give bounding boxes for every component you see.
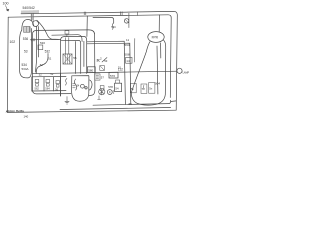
small box above 542 [116, 80, 120, 83]
svg-text:580: 580 [88, 69, 93, 73]
svg-text:2: 2 [100, 57, 102, 61]
vapor line right 2 [87, 43, 131, 104]
svg-text:5n: 5n [149, 87, 152, 91]
pump hatched box [63, 38, 72, 65]
svg-text:59: 59 [129, 102, 133, 106]
leader arrow for 100 [6, 6, 9, 12]
level marks [73, 84, 76, 88]
sensor glyph 2 [46, 80, 50, 87]
float squiggle [75, 79, 77, 90]
svg-text:53: 53 [104, 59, 108, 63]
svg-text:52: 52 [39, 72, 42, 76]
main fuel line [33, 71, 177, 74]
pump circle with dot [107, 90, 112, 95]
svg-text:540/542: 540/542 [23, 6, 35, 10]
border bottom [7, 110, 176, 112]
star valve [99, 89, 105, 95]
tick below [98, 96, 101, 100]
svg-text:594: 594 [124, 43, 129, 47]
sensor row bottom line [32, 90, 66, 92]
s-curve pipe [36, 54, 48, 74]
tick pair x120 [120, 12, 122, 15]
svg-text:54: 54 [77, 84, 80, 87]
sensor glyph 1 [35, 80, 39, 87]
svg-text:52: 52 [50, 72, 53, 76]
wire top tube outer [21, 11, 177, 110]
vertical from top tube to tank [86, 16, 88, 36]
svg-text:53: 53 [24, 50, 28, 54]
svg-text:14: 14 [126, 59, 130, 63]
svg-text:536: 536 [23, 37, 29, 41]
squiggle valve [112, 23, 113, 29]
svg-text:LAMP: LAMP [183, 71, 189, 74]
svg-text:50C: 50C [111, 25, 116, 29]
svg-text:508: 508 [124, 53, 129, 57]
svg-text:102: 102 [10, 40, 16, 44]
injector box 2 [141, 84, 147, 93]
R2 arrow [102, 58, 107, 63]
box with glyphs below line [95, 74, 100, 80]
filler pipe curve [37, 20, 59, 39]
svg-text:11: 11 [126, 38, 129, 42]
circle component mark [125, 19, 129, 23]
hook valve symbol [65, 79, 67, 86]
main fuel tank outline [32, 30, 95, 96]
bucket outline [72, 76, 92, 102]
svg-text:100: 100 [3, 2, 9, 6]
box 148 [126, 57, 132, 63]
regulator box 580 [88, 67, 96, 73]
tank outline [61, 36, 87, 96]
injector box 1 [130, 83, 136, 92]
small valve box above line [100, 66, 105, 71]
drop to FPR [158, 15, 160, 32]
svg-text:578: 578 [108, 85, 113, 89]
leader vertical right column [133, 39, 135, 63]
vent line canister to tank [30, 38, 61, 40]
svg-text:55: 55 [73, 56, 77, 60]
pump marks [113, 90, 114, 93]
tube pair right of canister [36, 27, 39, 73]
filler dome [22, 19, 34, 30]
canister hatched box [24, 27, 31, 33]
FPR circle [148, 32, 164, 43]
comb ticks filler cap [22, 10, 38, 13]
vapor line right 1 [87, 41, 125, 104]
branch corner to squiggle valve [93, 17, 114, 23]
pump circle dot [109, 91, 110, 92]
svg-text:FPR: FPR [152, 35, 159, 39]
svg-text:532: 532 [45, 50, 51, 54]
border left [6, 17, 9, 112]
sensor row frame [32, 76, 66, 91]
branch tick x136 [136, 12, 138, 16]
bucket small circle [85, 87, 87, 89]
svg-text:54: 54 [115, 86, 119, 90]
engine outline [131, 38, 165, 105]
svg-text:504: 504 [155, 81, 160, 85]
sensor glyph 3 [56, 81, 59, 88]
bottom inner line right join [168, 100, 176, 104]
svg-text:Akins Delta: Akins Delta [5, 110, 24, 114]
small box 530 [38, 45, 43, 50]
ground symbol [65, 97, 69, 105]
tank inner top line [61, 41, 81, 44]
lamp stem [175, 70, 178, 72]
tube verticals into tank [76, 40, 87, 74]
canister outline [20, 29, 32, 78]
small box above star valve [100, 86, 104, 89]
lamp circle [177, 68, 182, 73]
svg-text:5n: 5n [131, 87, 134, 91]
svg-text:140: 140 [24, 114, 29, 118]
svg-text:51: 51 [48, 57, 52, 61]
wire top tube inner / border top [8, 15, 171, 98]
bucket circle [81, 84, 85, 88]
box on line 576 [109, 72, 118, 78]
svg-text:564: 564 [45, 87, 50, 91]
filler cap circle [33, 21, 39, 27]
blob component above tank [65, 31, 69, 37]
svg-text:57: 57 [101, 75, 105, 79]
filler tube double line [31, 14, 33, 21]
vertical branch through circle valve [128, 13, 130, 27]
svg-text:51: 51 [118, 65, 122, 69]
filler tube shading [31, 14, 34, 20]
upper vent tube over tank [52, 35, 82, 42]
svg-text:576: 576 [110, 74, 115, 78]
bottom long inner line [60, 108, 171, 110]
box 542 [115, 83, 122, 91]
tick pair on tube [84, 12, 86, 15]
svg-text:534A: 534A [22, 67, 29, 71]
svg-text:562: 562 [35, 87, 40, 91]
wire tank drop [60, 73, 62, 96]
svg-text:530: 530 [40, 41, 45, 45]
engine inner verticals [157, 43, 161, 94]
ticks on vent line [32, 39, 35, 41]
circle component top [124, 19, 128, 23]
bottom inner line [93, 104, 168, 106]
injector box 3 [149, 83, 155, 94]
